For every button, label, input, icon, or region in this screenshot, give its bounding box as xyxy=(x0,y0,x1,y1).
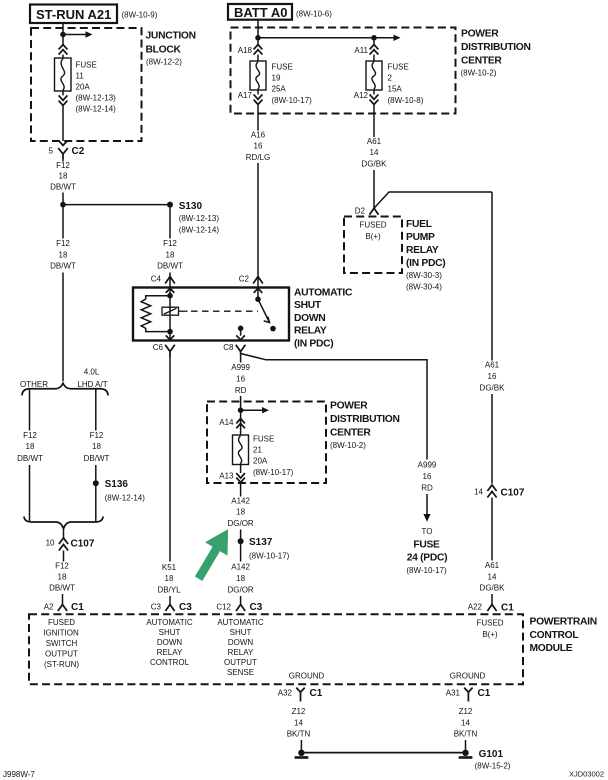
fuse F2 xyxy=(366,61,424,105)
connector C107 pin 10 xyxy=(46,538,95,551)
svg-text:SHUT: SHUT xyxy=(294,300,322,311)
svg-text:(8W-10-9): (8W-10-9) xyxy=(122,11,158,20)
svg-text:B(+): B(+) xyxy=(482,630,498,639)
svg-text:16: 16 xyxy=(236,375,245,384)
ground terminal G101 xyxy=(459,749,511,771)
junction block dashed box xyxy=(31,28,196,141)
svg-text:XJD03002: XJD03002 xyxy=(569,770,604,779)
relay switch open contact node xyxy=(270,326,276,332)
svg-text:OUTPUT: OUTPUT xyxy=(224,658,257,667)
fuse F19 xyxy=(250,61,312,105)
svg-text:A61: A61 xyxy=(485,361,500,370)
PCM pin A2 function label xyxy=(43,618,79,669)
svg-text:GROUND: GROUND xyxy=(289,672,325,681)
svg-text:(8W-12-14): (8W-12-14) xyxy=(76,105,117,114)
svg-text:18: 18 xyxy=(92,442,101,451)
svg-text:21: 21 xyxy=(253,445,262,454)
splice S136 xyxy=(93,479,145,503)
svg-text:DB/WT: DB/WT xyxy=(157,262,183,271)
svg-text:FUSED: FUSED xyxy=(359,221,386,230)
svg-text:Z12: Z12 xyxy=(292,707,306,716)
svg-text:SHUT: SHUT xyxy=(159,628,181,637)
bus wire to fuse 2 and arrow xyxy=(258,37,394,39)
node fuse 2 tap xyxy=(371,35,377,41)
svg-text:18: 18 xyxy=(59,172,68,181)
svg-text:CENTER: CENTER xyxy=(461,56,502,67)
svg-text:S137: S137 xyxy=(249,537,273,548)
connector C4 xyxy=(151,275,175,284)
svg-text:RD: RD xyxy=(235,386,247,395)
bus arrow in junction block xyxy=(63,34,86,36)
green pointer arrow xyxy=(195,529,228,581)
relay switch common node xyxy=(255,296,261,302)
exit arrow at junction block edge xyxy=(59,141,68,146)
pin A13 inline connector xyxy=(219,472,245,483)
svg-text:G101: G101 xyxy=(479,749,504,760)
svg-text:A18: A18 xyxy=(238,46,253,55)
relay coil box symbol xyxy=(162,307,179,315)
source box ST-RUN A21 xyxy=(30,5,158,24)
relay C8 contact node xyxy=(238,326,244,332)
bus arrow PDC2 xyxy=(241,409,263,411)
ground terminal left xyxy=(295,750,309,758)
svg-text:POWERTRAIN: POWERTRAIN xyxy=(530,617,597,628)
svg-text:DG/OR: DG/OR xyxy=(227,519,253,528)
svg-text:C8: C8 xyxy=(223,343,234,352)
svg-text:TO: TO xyxy=(422,527,433,536)
svg-text:16: 16 xyxy=(254,142,263,151)
svg-text:14: 14 xyxy=(474,488,483,497)
svg-text:F12: F12 xyxy=(163,239,177,248)
svg-text:20A: 20A xyxy=(76,82,91,91)
svg-text:16: 16 xyxy=(488,372,497,381)
wire to splice S130 xyxy=(63,204,170,206)
connector C1 pin A2 xyxy=(44,602,85,613)
svg-text:RELAY: RELAY xyxy=(406,245,439,256)
svg-text:K51: K51 xyxy=(162,563,177,572)
svg-text:14: 14 xyxy=(461,718,470,727)
svg-text:19: 19 xyxy=(272,74,281,83)
svg-text:11: 11 xyxy=(76,71,85,80)
entry arrow C4 xyxy=(166,288,175,293)
svg-text:24 (PDC): 24 (PDC) xyxy=(407,553,448,564)
svg-text:S130: S130 xyxy=(179,201,203,212)
svg-text:DG/BK: DG/BK xyxy=(480,584,506,593)
svg-text:C3: C3 xyxy=(151,603,162,612)
relay coil branch node top xyxy=(167,293,173,299)
wire BATT A0 feed xyxy=(257,20,259,61)
svg-text:A16: A16 xyxy=(251,131,266,140)
svg-text:Z12: Z12 xyxy=(459,707,473,716)
svg-text:(IN PDC): (IN PDC) xyxy=(294,338,333,349)
svg-text:S136: S136 xyxy=(105,479,129,490)
svg-text:(8W-12-14): (8W-12-14) xyxy=(179,226,220,235)
connector C6 xyxy=(153,343,175,357)
svg-text:DB/WT: DB/WT xyxy=(49,583,75,592)
wire fuse 2 to PDC edge xyxy=(373,90,375,114)
wire A61 right branch xyxy=(491,192,493,605)
svg-text:(ST-RUN): (ST-RUN) xyxy=(44,660,79,669)
connector C2 relay xyxy=(239,275,263,284)
svg-text:FUSE: FUSE xyxy=(253,434,274,443)
svg-text:BK/TN: BK/TN xyxy=(287,730,311,739)
svg-text:A17: A17 xyxy=(238,91,253,100)
svg-text:(8W-12-13): (8W-12-13) xyxy=(76,94,117,103)
svg-text:FUEL: FUEL xyxy=(406,219,432,230)
wire C8 to PDC 2 xyxy=(240,352,242,436)
svg-text:A13: A13 xyxy=(219,472,234,481)
svg-text:POWER: POWER xyxy=(330,401,368,412)
svg-text:(8W-10-8): (8W-10-8) xyxy=(388,96,424,105)
svg-text:F12: F12 xyxy=(55,562,69,571)
svg-text:SHUT: SHUT xyxy=(230,628,252,637)
svg-text:OUTPUT: OUTPUT xyxy=(45,649,78,658)
svg-text:AUTOMATIC: AUTOMATIC xyxy=(146,618,193,627)
svg-text:(IN PDC): (IN PDC) xyxy=(406,258,445,269)
svg-text:18: 18 xyxy=(58,572,67,581)
wire A999 16 RD label xyxy=(231,363,250,395)
wire C6 coil to edge xyxy=(169,332,171,340)
svg-text:LHD A/T: LHD A/T xyxy=(77,380,107,389)
svg-text:A142: A142 xyxy=(231,496,250,505)
svg-text:14: 14 xyxy=(370,148,379,157)
svg-text:F12: F12 xyxy=(56,161,70,170)
PCM pin C3 function label xyxy=(146,618,193,667)
powertrain control module dashed box xyxy=(29,614,597,684)
pin A17 inline connector xyxy=(238,91,263,105)
wire relay C6 to PCM xyxy=(169,357,171,605)
wire A61 14 DG/BK label right bottom xyxy=(480,561,506,592)
wire A31 to ground xyxy=(465,740,467,750)
wire ST-RUN A21 to junction block xyxy=(62,23,64,141)
svg-text:FUSE: FUSE xyxy=(413,540,440,551)
svg-text:A22: A22 xyxy=(468,603,483,612)
svg-text:(8W-30-4): (8W-30-4) xyxy=(406,283,442,292)
svg-text:DOWN: DOWN xyxy=(228,638,254,647)
svg-text:PUMP: PUMP xyxy=(406,232,435,243)
wire F12 18 DB/WT label OTHER xyxy=(17,431,43,463)
arrow to fuse 24 xyxy=(426,494,428,515)
svg-text:C6: C6 xyxy=(153,343,164,352)
svg-text:(8W-10-17): (8W-10-17) xyxy=(272,96,313,105)
fuse F21 xyxy=(233,434,294,477)
wire fuse2 to fuel pump relay xyxy=(373,114,375,208)
svg-text:AUTOMATIC: AUTOMATIC xyxy=(217,618,264,627)
split brace OTHER / 4.0L LHD A/T xyxy=(20,368,108,396)
svg-text:D2: D2 xyxy=(355,207,366,216)
inline connector below fuse 11 xyxy=(59,95,68,105)
connector C1 pin A31 xyxy=(446,688,491,702)
wire C2 to S130 level xyxy=(62,159,64,205)
svg-text:14: 14 xyxy=(488,572,497,581)
node at left wire S130 tap xyxy=(60,202,66,208)
svg-text:A32: A32 xyxy=(278,689,293,698)
inline connector above fuse 11 xyxy=(59,45,68,55)
relay coil through wire xyxy=(169,296,171,332)
connector C3 pin C3 xyxy=(151,602,192,613)
wire A61 16 DG/BK label right top xyxy=(480,361,506,393)
svg-text:RELAY: RELAY xyxy=(294,326,327,337)
wire F12 18 DB/WT label left xyxy=(50,239,76,271)
svg-text:5: 5 xyxy=(49,147,54,156)
node PDC2 feed xyxy=(238,407,244,413)
svg-text:(8W-10-17): (8W-10-17) xyxy=(249,552,290,561)
wire A32 to ground xyxy=(300,740,302,750)
exit arrow C6 xyxy=(166,335,175,339)
source box BATT A0 xyxy=(228,4,332,20)
wire S137 to PCM C12 xyxy=(240,596,242,605)
wire left branch down xyxy=(62,205,64,381)
svg-text:SWITCH: SWITCH xyxy=(46,639,78,648)
svg-text:10: 10 xyxy=(46,539,55,548)
svg-text:16: 16 xyxy=(423,472,432,481)
svg-text:(8W-10-17): (8W-10-17) xyxy=(253,468,294,477)
svg-text:DB/WT: DB/WT xyxy=(84,454,110,463)
svg-text:25A: 25A xyxy=(272,85,287,94)
wire F12 18 DB/WT label 4.0L xyxy=(84,431,110,463)
wire A16 16 RD/LG label xyxy=(246,131,270,162)
svg-text:(8W-12-2): (8W-12-2) xyxy=(146,58,182,67)
svg-text:C12: C12 xyxy=(216,603,231,612)
svg-text:RELAY: RELAY xyxy=(157,648,183,657)
connector C2 pin 5 xyxy=(49,146,85,159)
svg-text:18: 18 xyxy=(236,508,245,517)
splice S137 xyxy=(238,537,290,561)
svg-text:FUSED: FUSED xyxy=(476,619,503,628)
PCM pin C12 function label xyxy=(217,618,264,677)
svg-text:CENTER: CENTER xyxy=(330,428,371,439)
svg-text:20A: 20A xyxy=(253,456,268,465)
svg-text:DISTRIBUTION: DISTRIBUTION xyxy=(461,42,531,53)
svg-text:C2: C2 xyxy=(239,275,250,284)
svg-text:15A: 15A xyxy=(388,85,403,94)
svg-text:JUNCTION: JUNCTION xyxy=(146,31,196,42)
wire fuse 21 to S137 xyxy=(240,465,242,562)
svg-text:POWER: POWER xyxy=(461,29,499,40)
wire OTHER branch xyxy=(29,389,31,522)
wire K51 18 DB/YL label xyxy=(157,563,181,595)
PCM pin A22 function label xyxy=(476,619,503,640)
svg-text:(8W-30-3): (8W-30-3) xyxy=(406,271,442,280)
svg-text:F12: F12 xyxy=(56,239,70,248)
wire A142 18 DG/OR label xyxy=(227,496,253,528)
relay C8 contact stem xyxy=(240,328,242,335)
wire C8 branch to fuse 24 feed xyxy=(241,352,427,460)
power distribution center dashed box xyxy=(231,28,531,114)
svg-text:FUSED: FUSED xyxy=(48,618,75,627)
svg-text:18: 18 xyxy=(59,250,68,259)
svg-text:(8W-12-13): (8W-12-13) xyxy=(179,214,220,223)
svg-text:A12: A12 xyxy=(354,91,369,100)
relay U1 automatic shut down relay box xyxy=(133,288,353,350)
svg-text:OTHER: OTHER xyxy=(20,380,48,389)
wire into PCM A2 xyxy=(62,594,64,605)
wire A999 16 RD label right xyxy=(418,461,437,493)
svg-text:ST-RUN A21: ST-RUN A21 xyxy=(36,7,111,22)
wire Z12 14 BK/TN label left xyxy=(287,707,311,739)
svg-text:(8W-15-2): (8W-15-2) xyxy=(475,762,511,771)
svg-text:DG/BK: DG/BK xyxy=(480,383,506,392)
svg-text:C1: C1 xyxy=(478,688,491,699)
connector C3 pin C12 xyxy=(216,602,262,613)
svg-text:C3: C3 xyxy=(179,602,192,613)
svg-text:DG/OR: DG/OR xyxy=(227,585,253,594)
svg-text:DB/WT: DB/WT xyxy=(50,262,76,271)
svg-text:BK/TN: BK/TN xyxy=(454,730,478,739)
svg-text:C107: C107 xyxy=(501,488,525,499)
svg-text:2: 2 xyxy=(388,74,393,83)
relay coil zigzag xyxy=(141,296,170,332)
svg-text:C3: C3 xyxy=(250,602,263,613)
svg-text:C1: C1 xyxy=(71,602,84,613)
svg-text:DOWN: DOWN xyxy=(157,638,183,647)
svg-text:(8W-10-6): (8W-10-6) xyxy=(296,10,332,19)
svg-text:CONTROL: CONTROL xyxy=(150,658,190,667)
svg-text:14: 14 xyxy=(294,718,303,727)
svg-text:F12: F12 xyxy=(90,431,104,440)
fuel pump relay dashed box xyxy=(344,217,445,292)
wire fuse 19 to PDC edge xyxy=(257,90,259,114)
svg-text:(8W-10-17): (8W-10-17) xyxy=(406,566,447,575)
svg-text:18: 18 xyxy=(236,574,245,583)
svg-text:4.0L: 4.0L xyxy=(84,368,100,377)
pin A18 inline connector xyxy=(238,45,263,56)
svg-text:J998W-7: J998W-7 xyxy=(3,770,35,779)
wire Z12 14 BK/TN label right xyxy=(454,707,478,739)
wire to C107 xyxy=(63,529,65,562)
svg-text:DB/WT: DB/WT xyxy=(50,182,76,191)
svg-text:C1: C1 xyxy=(501,603,514,614)
splice S130 xyxy=(167,201,219,235)
wire branch to A61 right xyxy=(374,192,492,208)
svg-text:A11: A11 xyxy=(354,46,368,55)
power distribution center 2 dashed box xyxy=(207,401,400,484)
svg-text:A2: A2 xyxy=(44,603,54,612)
svg-text:BLOCK: BLOCK xyxy=(146,45,182,56)
svg-text:AUTOMATIC: AUTOMATIC xyxy=(294,288,353,299)
label TO FUSE 24 PDC xyxy=(406,527,447,575)
wire F12 18 DB/WT label xyxy=(50,161,76,191)
wire fuse19 to relay C2 xyxy=(257,114,259,299)
svg-text:DOWN: DOWN xyxy=(294,313,325,324)
connector C1 pin A32 xyxy=(278,688,323,702)
svg-text:18: 18 xyxy=(26,442,35,451)
wire A142 18 DG/OR label lower xyxy=(227,563,253,595)
svg-text:C4: C4 xyxy=(151,275,162,284)
pin A11 inline connector xyxy=(354,45,378,56)
svg-text:MODULE: MODULE xyxy=(530,643,573,654)
svg-text:A999: A999 xyxy=(231,363,250,372)
svg-text:IGNITION: IGNITION xyxy=(43,628,79,637)
svg-text:BATT A0: BATT A0 xyxy=(234,5,287,20)
svg-text:A61: A61 xyxy=(367,137,382,146)
svg-text:(8W-12-14): (8W-12-14) xyxy=(105,494,146,503)
svg-text:(8W-10-2): (8W-10-2) xyxy=(461,69,497,78)
svg-text:F12: F12 xyxy=(23,431,37,440)
wire 4.0L branch xyxy=(95,389,97,522)
svg-text:RD/LG: RD/LG xyxy=(246,153,270,162)
wire S130 to relay xyxy=(169,205,171,296)
relay actuating dashed link xyxy=(179,310,188,312)
ground bus wire xyxy=(301,752,465,754)
svg-text:FUSE: FUSE xyxy=(388,63,409,72)
relay coil branch node bottom xyxy=(167,329,173,335)
node PDC feed xyxy=(255,35,261,41)
connector C8 xyxy=(223,343,245,352)
pin A14 inline connector xyxy=(219,418,245,428)
svg-text:FUSE: FUSE xyxy=(76,61,97,70)
svg-text:18: 18 xyxy=(165,574,174,583)
svg-text:A31: A31 xyxy=(446,689,461,698)
svg-text:DG/BK: DG/BK xyxy=(362,160,388,169)
svg-text:18: 18 xyxy=(166,250,175,259)
entry arrow C2 xyxy=(254,288,263,293)
svg-text:(8W-10-2): (8W-10-2) xyxy=(330,441,366,450)
svg-text:CONTROL: CONTROL xyxy=(530,630,579,641)
svg-text:B(+): B(+) xyxy=(365,232,381,241)
svg-text:C1: C1 xyxy=(310,688,323,699)
wire fuse 2 feed xyxy=(373,38,375,61)
svg-text:A14: A14 xyxy=(219,418,234,427)
svg-text:FUSE: FUSE xyxy=(272,63,293,72)
wire F12 18 DB/WT label lower xyxy=(49,562,75,593)
svg-text:DB/YL: DB/YL xyxy=(157,586,181,595)
pin A12 inline connector xyxy=(354,91,379,105)
connector C1 pin A22 xyxy=(468,603,514,614)
svg-text:A61: A61 xyxy=(485,561,500,570)
connector D2 xyxy=(355,207,379,216)
wire A61 14 DG/BK label top xyxy=(362,137,388,169)
relay switch blade xyxy=(258,299,270,322)
connector C107 pin 14 xyxy=(474,485,525,499)
svg-text:SENSE: SENSE xyxy=(227,668,254,677)
svg-text:DB/WT: DB/WT xyxy=(17,454,43,463)
svg-text:RELAY: RELAY xyxy=(228,648,254,657)
svg-text:RD: RD xyxy=(421,483,433,492)
exit arrow C8 xyxy=(236,335,245,339)
svg-text:A142: A142 xyxy=(231,563,250,572)
svg-text:GROUND: GROUND xyxy=(450,672,486,681)
merge brace xyxy=(24,517,103,529)
node junction block feed xyxy=(60,32,66,38)
fuse F11 xyxy=(55,58,117,114)
svg-text:C107: C107 xyxy=(71,539,95,550)
wire middle F12 label (S130 to relay C4) xyxy=(157,239,183,271)
svg-text:A999: A999 xyxy=(418,461,437,470)
svg-text:DISTRIBUTION: DISTRIBUTION xyxy=(330,414,400,425)
svg-text:C2: C2 xyxy=(72,146,85,157)
